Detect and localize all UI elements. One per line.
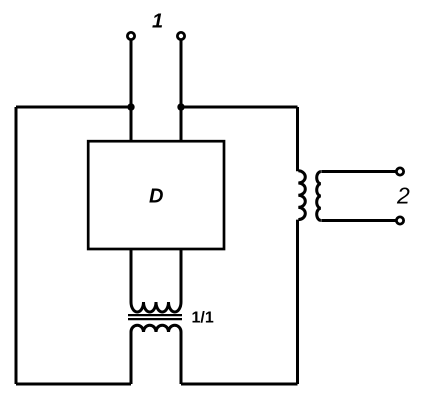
- junction dot at right input on loop: [177, 103, 184, 110]
- wire: left edge of loop: [15, 107, 18, 384]
- transformer T2 primary winding (on right edge of loop): [298, 171, 305, 220]
- transformer T2 secondary winding: [317, 172, 321, 221]
- wire: right edge of loop, upper segment: [296, 107, 299, 171]
- svg-text:D: D: [149, 186, 163, 208]
- wire: bottom-right loop segment: [181, 383, 298, 386]
- wire: terminal 1 right lead down to box D: [180, 38, 183, 142]
- terminal 2 lower open circle: [396, 217, 403, 224]
- wire: terminal 1 left lead down to box D: [130, 38, 133, 142]
- terminal 1 right open circle: [177, 32, 184, 39]
- svg-text:1: 1: [152, 11, 163, 33]
- wire: top-left loop segment from left junction to outer frame: [16, 106, 131, 109]
- wire: upper lead from T2 secondary to terminal 2: [321, 170, 400, 173]
- junction dot at left input on loop: [127, 103, 134, 110]
- transformer T1 core (upper bar): [128, 314, 182, 316]
- transformer T1 primary winding with leads from box D: [131, 249, 181, 312]
- wire: top-right loop segment from right junction to right edge: [181, 106, 298, 109]
- transformer T1 core (lower bar): [128, 318, 182, 320]
- terminal 1 left open circle: [127, 32, 134, 39]
- box D (device): [88, 141, 224, 249]
- svg-text:1/1: 1/1: [192, 310, 214, 327]
- wire: lower lead from T2 secondary to terminal 2: [321, 219, 400, 222]
- svg-text:2: 2: [396, 183, 410, 209]
- terminal 2 upper open circle: [396, 168, 403, 175]
- transformer T1 secondary winding with leads to bottom loop: [131, 325, 181, 384]
- wire: right edge of loop, lower segment: [296, 220, 299, 384]
- wire: bottom-left loop segment: [16, 383, 131, 386]
